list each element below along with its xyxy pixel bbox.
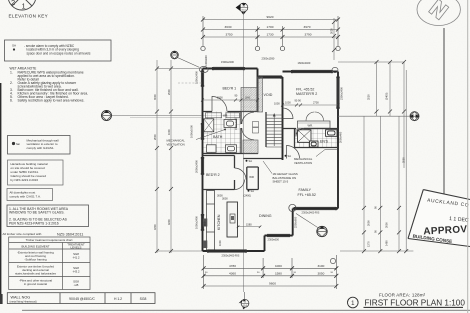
svg-text:9620: 9620 — [267, 15, 274, 19]
svg-text:1500x2400: 1500x2400 — [221, 60, 234, 64]
elevation marker family — [296, 214, 327, 237]
svg-text:in ground material: in ground material — [24, 282, 47, 286]
svg-text:Safety restriction apply to we: Safety restriction apply to wet area win… — [18, 99, 85, 103]
fan note box — [8, 136, 71, 155]
svg-text:space door and on escape route: space door and on escape routes on all l… — [27, 51, 91, 55]
svg-text:(1400): (1400) — [385, 92, 389, 100]
step wall west — [264, 236, 266, 252]
svg-text:BED'R 2: BED'R 2 — [206, 173, 220, 177]
svg-text:EN'S: EN'S — [320, 140, 329, 144]
svg-text:1000: 1000 — [167, 129, 171, 135]
svg-text:fan: fan — [16, 142, 21, 146]
svg-text:(2400): (2400) — [244, 194, 252, 198]
svg-text:stairs,handrails and balustrad: stairs,handrails and balustrades — [15, 271, 56, 275]
drawing number circle — [348, 297, 359, 308]
ensuite tiled floor — [295, 129, 339, 148]
dim line 9620 — [203, 19, 338, 21]
doors — [212, 97, 304, 190]
svg-text:1730: 1730 — [267, 33, 274, 37]
scan edge: right faint line — [467, 0, 468, 313]
left vertical dim lines — [157, 60, 202, 253]
svg-text:9600: 9600 — [269, 282, 276, 286]
master south wall — [283, 128, 339, 130]
svg-text:2000: 2000 — [367, 220, 371, 226]
svg-text:1000: 1000 — [275, 264, 282, 268]
bed'r1 / bath wall — [203, 111, 258, 113]
ensuite south wall — [295, 147, 339, 149]
LEFT-NOTES — [3, 0, 156, 304]
wall nog table — [7, 293, 155, 304]
svg-text:VOID: VOID — [264, 93, 273, 97]
svg-text:VENTILATION: VENTILATION — [294, 161, 312, 165]
dim line 4780/1000/3100 — [204, 267, 337, 269]
family hall door — [287, 146, 300, 159]
window: bottom wall slider — [208, 250, 246, 252]
svg-text:H 1.2: H 1.2 — [114, 297, 122, 301]
svg-text:1300x600: 1300x600 — [205, 55, 208, 66]
section line vertical — [242, 12, 244, 292]
svg-text:1000: 1000 — [274, 102, 280, 106]
svg-text:2300: 2300 — [217, 96, 223, 100]
hall balustrade — [243, 158, 282, 160]
svg-text:SA: SA — [288, 154, 292, 158]
svg-text:1360: 1360 — [245, 96, 251, 100]
svg-text:PER NZS 4223-PARTS 1-3:2016: PER NZS 4223-PARTS 1-3:2016 — [9, 221, 59, 225]
svg-text:2300x600: 2300x600 — [268, 238, 280, 242]
dim line 3750/1730/3790 — [203, 36, 338, 38]
svg-text:4780: 4780 — [229, 264, 236, 268]
grid bubbles under dims — [201, 46, 340, 50]
svg-text:1580: 1580 — [246, 223, 252, 227]
elevation marker right — [338, 112, 419, 121]
svg-text:2900: 2900 — [167, 89, 171, 95]
svg-text:3790: 3790 — [305, 33, 312, 37]
TOP-DIMS — [201, 3, 340, 292]
grid bubble family corner — [289, 204, 296, 211]
svg-text:comply with G4/AS1.: comply with G4/AS1. — [27, 146, 55, 150]
dim line 4360/1580/3050 — [204, 275, 337, 277]
elevation marker left — [102, 111, 203, 121]
frame line right — [443, 28, 445, 242]
right vertical dim lines — [338, 62, 413, 251]
svg-text:2300x2400 R/S: 2300x2400 R/S — [222, 254, 240, 258]
svg-text:2000x400: 2000x400 — [339, 131, 343, 143]
RIGHT-SIDE — [330, 0, 461, 253]
stairs — [266, 114, 283, 147]
svg-text:Timber treatment requirements: Timber treatment requirements chart — [26, 238, 73, 242]
bed'r1 wardrobe — [241, 88, 258, 112]
svg-text:1370: 1370 — [367, 241, 371, 247]
svg-text:-H3.2: -H3.2 — [72, 269, 79, 273]
svg-text:2000x2400: 2000x2400 — [195, 160, 199, 173]
svg-text:-H1.2: -H1.2 — [72, 255, 79, 259]
svg-text:comply with C/AS1 7.A.: comply with C/AS1 7.A. — [10, 195, 42, 199]
svg-text:KITCHEN: KITCHEN — [217, 214, 221, 230]
kitchen counter — [207, 191, 215, 251]
top wall void — [258, 76, 283, 78]
svg-text:FFL +65.52: FFL +65.52 — [296, 88, 314, 92]
exterior walls — [203, 69, 339, 252]
room labels — [206, 87, 329, 219]
right wall — [337, 72, 339, 209]
interior walls — [203, 112, 339, 190]
hazardous material note box — [8, 160, 64, 185]
svg-text:3630: 3630 — [225, 25, 232, 29]
svg-text:2600: 2600 — [153, 134, 157, 140]
svg-text:600: 600 — [203, 221, 207, 226]
windows: top wall — [213, 67, 332, 78]
bath and linen doors — [242, 112, 254, 139]
svg-text:1.: 1. — [10, 71, 13, 75]
window: step wall — [267, 234, 290, 236]
svg-text:4300: 4300 — [153, 224, 157, 230]
svg-text:3550: 3550 — [367, 94, 371, 100]
right top extension dims — [332, 18, 336, 60]
void west wall band — [258, 77, 263, 112]
top wall master — [283, 71, 339, 73]
svg-text:2300x2400: 2300x2400 — [340, 87, 344, 100]
svg-text:VENTILATION: VENTILATION — [167, 142, 185, 146]
svg-text:(metal fixing Heartwood): (metal fixing Heartwood) — [10, 300, 37, 303]
window: right wall — [337, 78, 339, 109]
svg-text:BATH: BATH — [213, 135, 223, 139]
svg-text:WR.: WR. — [308, 123, 314, 127]
windows: left wall — [201, 72, 203, 231]
safety glass note box — [7, 205, 89, 227]
svg-text:by NZS 4223.3.2016: by NZS 4223.3.2016 — [11, 178, 39, 182]
svg-text:WALL NOG: WALL NOG — [11, 295, 31, 299]
PLAN — [102, 51, 420, 257]
dim line 9600 — [204, 285, 337, 287]
svg-text:2: 2 — [11, 0, 15, 7]
svg-text:-H5: -H5 — [74, 283, 79, 287]
hall closet walls — [247, 167, 258, 190]
void/master wall — [282, 77, 284, 160]
interior dim line dining — [237, 226, 261, 229]
svg-text:BUILDING ELEMENT: BUILDING ELEMENT — [21, 244, 49, 248]
svg-text:FAMILY: FAMILY — [299, 188, 312, 192]
section marker bottom — [239, 292, 249, 309]
svg-text:ELEVATION KEY: ELEVATION KEY — [9, 14, 48, 19]
scan edge: left black strip — [0, 83, 1, 303]
svg-text:2.: 2. — [10, 81, 13, 85]
bed'r2 north wall — [203, 155, 235, 157]
window labels — [221, 57, 320, 258]
svg-text:SG8: SG8 — [140, 297, 147, 301]
bed'r1 door — [212, 97, 227, 112]
svg-text:DINING: DINING — [259, 214, 272, 218]
svg-text:FFL +65.52: FFL +65.52 — [298, 193, 316, 197]
TITLE-STAMP — [348, 190, 470, 308]
svg-text:2700: 2700 — [313, 101, 319, 105]
master wardrobe doors — [306, 112, 324, 121]
scan edge: bottom grey line — [22, 310, 470, 311]
dim line 3630/1700/3970 — [203, 29, 338, 31]
dim ticks — [201, 18, 340, 40]
mech vent note right — [294, 157, 313, 165]
left wall — [202, 69, 204, 252]
master entry door — [283, 108, 294, 119]
stair well walls — [265, 112, 267, 147]
step wall east — [292, 209, 294, 236]
bed'r2 doors — [235, 168, 247, 190]
balustrade note — [273, 172, 298, 184]
svg-text:1500x2400: 1500x2400 — [195, 71, 199, 84]
svg-text:LEVELS: LEVELS — [71, 245, 82, 249]
svg-text:SA: SA — [249, 159, 253, 163]
step wall south — [265, 235, 293, 237]
hall shelves — [253, 122, 259, 128]
svg-text:3000: 3000 — [385, 222, 389, 228]
hall linen closet — [243, 140, 258, 154]
svg-text:All timber size complied with: All timber size complied with — [3, 232, 42, 236]
family south window wall — [293, 208, 338, 210]
extension verticals — [202, 16, 204, 46]
bed'r1 cabinets row — [206, 113, 240, 118]
svg-text:WINDOWS TO BE SAFETY GLASS.: WINDOWS TO BE SAFETY GLASS. — [9, 211, 64, 215]
svg-text:4360: 4360 — [229, 271, 236, 275]
svg-text:15-5: 15-5 — [241, 10, 246, 12]
svg-text:SA: SA — [251, 189, 255, 193]
svg-text:MASTER'R 2: MASTER'R 2 — [296, 92, 317, 96]
svg-text:SA: SA — [12, 44, 16, 48]
svg-text:1460: 1460 — [385, 240, 389, 246]
bed'r2 east wall — [234, 156, 236, 190]
svg-text:2300x2400 R/S: 2300x2400 R/S — [302, 210, 320, 214]
timber treatment table — [9, 237, 90, 290]
svg-text:6.: 6. — [10, 99, 13, 103]
svg-text:3000: 3000 — [153, 94, 157, 100]
svg-text:1580: 1580 — [275, 271, 282, 275]
svg-text:SHEET 15-5: SHEET 15-5 — [273, 180, 289, 184]
section marker top — [236, 3, 248, 15]
window: family south sliders — [295, 207, 336, 209]
svg-text:1000x2400: 1000x2400 — [195, 216, 199, 229]
bottom wall — [203, 250, 265, 252]
north symbol — [417, 0, 460, 26]
grid bubble bottom right — [330, 258, 335, 263]
svg-text:-Subfloor framing: -Subfloor framing — [24, 257, 47, 261]
extension verticals — [203, 255, 205, 289]
svg-text:2630: 2630 — [330, 28, 334, 34]
bath south wall — [203, 153, 259, 155]
svg-text:1000: 1000 — [218, 240, 222, 246]
svg-text:90X45 @450C/C: 90X45 @450C/C — [69, 297, 95, 301]
kitchen island — [227, 202, 238, 237]
svg-text:WR.: WR. — [223, 114, 228, 118]
ensuite fixtures — [298, 130, 338, 147]
svg-text:90 90: 90 90 — [295, 99, 302, 103]
svg-text:3550: 3550 — [401, 157, 405, 163]
master wardrobe — [298, 121, 331, 128]
elevation marker upper-left — [171, 51, 209, 83]
smoke alarms — [246, 154, 292, 193]
bath east wall — [240, 112, 242, 154]
svg-text:FLOOR AREA: 128m²: FLOOR AREA: 128m² — [379, 293, 426, 298]
svg-text:1000x1000: 1000x1000 — [190, 125, 194, 138]
svg-text:1600x2400: 1600x2400 — [298, 61, 311, 65]
approval stamp — [408, 190, 470, 247]
dim labels — [225, 15, 312, 37]
bed'r2 south wall — [203, 189, 235, 191]
svg-text:BED'R 1: BED'R 1 — [223, 87, 237, 91]
smoke alarm note box — [5, 40, 112, 61]
svg-text:1000: 1000 — [285, 101, 291, 105]
elevation key symbol — [8, 0, 36, 10]
ensuite west wall — [294, 129, 296, 148]
svg-text:3970: 3970 — [304, 25, 311, 29]
svg-text:NZS 3604:2011: NZS 3604:2011 — [57, 232, 83, 236]
svg-text:1900x1000: 1900x1000 — [234, 117, 238, 130]
bed'r1/void wall — [257, 69, 259, 113]
ensuite door — [296, 129, 304, 137]
svg-text:3100: 3100 — [317, 264, 324, 268]
bath fixtures — [204, 119, 237, 153]
bath tiled floor — [203, 112, 242, 154]
svg-text:2300x600: 2300x600 — [294, 216, 298, 228]
interior dim line bed'r1 — [201, 99, 259, 102]
svg-text:1700: 1700 — [267, 25, 274, 29]
downlights note box — [7, 189, 53, 201]
svg-text:WR: WR — [249, 175, 254, 179]
mech vent note left — [167, 139, 186, 147]
svg-text:2300x1590: 2300x1590 — [262, 57, 275, 61]
svg-text:FIRST FLOOR PLAN 1:100: FIRST FLOOR PLAN 1:100 — [365, 299, 466, 308]
svg-text:1: 1 — [22, 2, 26, 11]
interior dim line master — [281, 104, 340, 107]
BOTTOM-DIMS — [202, 255, 339, 309]
top wall bed'r1 — [203, 68, 258, 70]
svg-text:3750: 3750 — [226, 33, 233, 37]
svg-text:4200: 4200 — [167, 219, 171, 225]
svg-text:3050: 3050 — [317, 271, 324, 275]
svg-text:3000: 3000 — [222, 197, 228, 201]
